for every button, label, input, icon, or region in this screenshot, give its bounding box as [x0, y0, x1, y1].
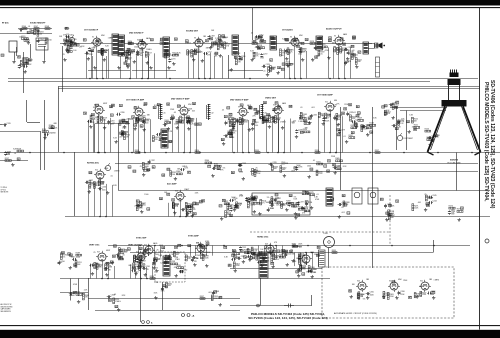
wire crt drop1 [396, 108, 398, 151]
svg-text:1500: 1500 [155, 254, 159, 256]
resistor R247 [366, 125, 371, 129]
resistor R343 [228, 116, 234, 120]
value labels [331, 198, 334, 201]
resistor R412 [286, 62, 292, 66]
resistor R217 [145, 52, 151, 58]
wire left vert from T1 [62, 46, 64, 92]
tube V6 [93, 104, 105, 116]
value labels [327, 156, 348, 173]
terminal box [376, 57, 380, 77]
svg-text:67: 67 [301, 43, 303, 45]
svg-text:C261: C261 [146, 266, 150, 268]
resistor R281 [244, 250, 250, 254]
resistor R236 [188, 118, 194, 123]
wire left drop long [23, 52, 25, 93]
value labels [253, 40, 256, 43]
value labels [121, 116, 135, 125]
ground [211, 174, 214, 178]
svg-text:73: 73 [172, 200, 174, 202]
label tube type 6AG5 [153, 242, 157, 245]
svg-text:83: 83 [161, 39, 163, 41]
top rule line [0, 7, 500, 9]
wire drop comb [214, 56, 216, 79]
wire stage drop [168, 203, 170, 217]
ground [174, 177, 177, 181]
svg-text:29: 29 [142, 43, 144, 45]
svg-text:65: 65 [235, 57, 237, 59]
node junction [146, 278, 148, 280]
tube V1 [91, 36, 103, 48]
rotated page title PHILCO MODELS [483, 82, 489, 202]
wire stage drop [289, 50, 291, 79]
node junction [369, 152, 371, 154]
wire stage drop [108, 49, 110, 79]
wire yoke vert [328, 248, 330, 268]
svg-text:V11: V11 [325, 101, 328, 103]
resistor R382 [174, 251, 180, 257]
ground [366, 133, 369, 137]
value labels [263, 101, 266, 104]
resistor R302 [300, 265, 307, 272]
resistor R394 [282, 250, 287, 254]
value labels [396, 200, 399, 203]
svg-text:78: 78 [132, 117, 134, 119]
svg-text:1500: 1500 [301, 208, 305, 210]
node junction [471, 152, 473, 154]
svg-text:95: 95 [349, 105, 351, 107]
capacitor C206 [238, 55, 245, 60]
value labels [252, 197, 255, 200]
svg-text:78: 78 [210, 39, 212, 41]
svg-text:10: 10 [122, 41, 124, 43]
volume control pot [66, 34, 75, 43]
resistor R316 [217, 44, 224, 50]
transformer T6 [363, 42, 369, 54]
resistor R306 [383, 291, 390, 298]
svg-text:98: 98 [290, 251, 292, 253]
svg-text:5%: 5% [223, 167, 226, 169]
svg-text:17: 17 [227, 108, 229, 110]
svg-text:57: 57 [124, 251, 126, 253]
wire damper drop [260, 278, 262, 306]
shield box with crystal [352, 188, 362, 204]
wire crt drop2 [406, 111, 408, 151]
svg-text:R395: R395 [332, 250, 336, 252]
resistor R320 [321, 44, 327, 48]
svg-text:26: 26 [194, 214, 196, 216]
label tube type 1B3 [203, 36, 206, 38]
svg-text:1500: 1500 [318, 173, 322, 175]
ground [209, 46, 212, 50]
svg-text:49: 49 [264, 101, 266, 104]
ground [106, 191, 109, 195]
node junction [185, 216, 187, 218]
wire row C bus [118, 190, 490, 192]
svg-text:21: 21 [167, 194, 169, 196]
capacitor C306 [107, 295, 115, 299]
value labels [386, 204, 395, 216]
value labels [281, 162, 297, 173]
svg-text:R208: R208 [45, 26, 49, 28]
resistor R358 [143, 168, 149, 172]
capacitor C303 [136, 203, 144, 207]
svg-text:42: 42 [169, 140, 171, 143]
svg-text:100: 100 [281, 55, 284, 57]
svg-text:80: 80 [317, 255, 319, 257]
wire sync row bus [108, 245, 470, 247]
resistor R211 [70, 42, 76, 47]
tube V7 [133, 106, 145, 118]
resistor R264 [185, 202, 191, 208]
node junction [209, 78, 211, 80]
wire stage drop [336, 116, 338, 153]
inductor L32 [207, 104, 214, 120]
value labels [19, 26, 39, 39]
svg-text:5%: 5% [267, 197, 270, 199]
ground [294, 216, 297, 220]
transformer T8 [316, 36, 323, 50]
svg-text:5%: 5% [247, 249, 250, 251]
resistor R363 [271, 165, 277, 170]
wire stage drop [138, 118, 140, 153]
sound discriminator box [252, 193, 310, 215]
resistor R328 [310, 41, 316, 45]
ground [103, 126, 106, 130]
svg-text:1500: 1500 [102, 190, 106, 192]
svg-text:1B3: 1B3 [429, 279, 432, 281]
ground [260, 264, 263, 268]
node junction [335, 152, 337, 154]
svg-text:.01: .01 [251, 33, 254, 35]
svg-text:86: 86 [233, 250, 235, 252]
value labels [271, 37, 274, 40]
svg-text:100: 100 [172, 174, 175, 176]
wire stage drop [133, 120, 135, 153]
capacitor C245 [428, 195, 436, 199]
alternate horizontal circuit dashed box [322, 267, 454, 318]
capacitor C218 [107, 120, 114, 125]
resistor R347 [299, 116, 306, 120]
svg-text:.01: .01 [353, 112, 356, 114]
ground [242, 260, 245, 264]
svg-text:R353: R353 [135, 150, 139, 152]
resistor R277 [140, 255, 146, 260]
wire stage drop [290, 119, 292, 153]
svg-text:87: 87 [358, 52, 360, 54]
resistor R245 [336, 113, 342, 120]
svg-text:38: 38 [92, 114, 94, 116]
svg-text:81: 81 [270, 60, 272, 62]
svg-text:R355: R355 [255, 150, 259, 152]
capacitor C282 [225, 121, 232, 126]
ground [176, 126, 179, 130]
svg-text:C287: C287 [150, 160, 154, 162]
svg-text:1 MEG: 1 MEG [280, 122, 286, 124]
resistor R295 [139, 263, 145, 269]
capacitor C253 [262, 257, 270, 262]
value labels [66, 40, 86, 48]
ground [310, 206, 313, 210]
svg-text:C297: C297 [299, 202, 303, 204]
resistor R371 [316, 161, 322, 165]
value labels [267, 105, 296, 124]
wire stage drop [300, 253, 302, 267]
resistor R314 [165, 52, 171, 58]
svg-text:39: 39 [175, 247, 177, 249]
svg-text:35: 35 [353, 55, 355, 57]
label tube type 6K6 [334, 100, 337, 102]
node junction [198, 78, 200, 80]
resistor R402 [225, 211, 232, 218]
value labels [159, 197, 162, 200]
svg-text:2ND VIDEO IF AMP: 2ND VIDEO IF AMP [171, 97, 190, 100]
wire stage drop [312, 253, 314, 269]
resistor R307 [420, 291, 426, 296]
value labels [91, 252, 120, 266]
svg-text:.01: .01 [303, 116, 306, 118]
resistor R359 [142, 162, 149, 169]
svg-text:C270: C270 [171, 59, 175, 61]
ground [338, 215, 341, 219]
svg-text:.001: .001 [176, 254, 180, 256]
wire drop comb [92, 56, 94, 79]
svg-text:C219: C219 [144, 119, 148, 121]
resistor R210 [45, 38, 51, 44]
capacitor C294 [248, 198, 255, 203]
svg-text:5%: 5% [262, 203, 265, 205]
resistor R234 [135, 117, 141, 123]
resistor R279 [201, 253, 207, 259]
capacitor C267 [427, 291, 435, 296]
svg-text:C271: C271 [224, 43, 228, 45]
capacitor C275 [121, 132, 128, 137]
tube V9 [237, 106, 249, 118]
node junction [139, 245, 141, 247]
wire stage drop [135, 267, 137, 279]
resistor R325 [160, 41, 166, 45]
label AGC AMP [167, 182, 177, 185]
label tube type 6AV6 [343, 33, 347, 36]
resistor R212 [68, 45, 74, 50]
wire stage drop [114, 266, 116, 279]
svg-text:29: 29 [356, 116, 358, 118]
resistor R273 [457, 209, 463, 213]
ground [146, 61, 149, 65]
svg-text:66: 66 [329, 40, 331, 42]
svg-text:1B3: 1B3 [203, 36, 206, 38]
resistor R346 [262, 117, 269, 124]
ground [230, 68, 233, 72]
resistor R362 [280, 166, 286, 172]
label tube type 6AV6 [143, 104, 147, 107]
wire stage drop [152, 266, 154, 279]
transformer T5 [232, 35, 239, 55]
node junction [107, 278, 109, 280]
wire IF bus [0, 152, 500, 154]
svg-text:69: 69 [381, 199, 383, 201]
wire bottom bus [130, 252, 433, 254]
ground [395, 296, 398, 300]
resistor R376 [302, 191, 309, 195]
svg-text:65: 65 [195, 124, 197, 126]
svg-text:R207: R207 [34, 26, 38, 28]
capacitor C269 [120, 52, 128, 56]
resistor R238 [242, 119, 249, 125]
node +A [182, 314, 195, 318]
resistor R208 [45, 26, 50, 30]
wire sub wire [250, 171, 478, 173]
value labels [260, 57, 276, 72]
svg-text:6AU6: 6AU6 [146, 37, 150, 40]
capacitor C243 [270, 203, 278, 207]
wire bottom link [230, 305, 312, 307]
value labels [150, 39, 153, 42]
capacitor C276 [156, 132, 164, 136]
resistor R237 [180, 116, 186, 123]
capacitor C307 [161, 287, 168, 292]
value labels [252, 249, 266, 259]
value labels [352, 37, 355, 40]
resistor R207 [34, 26, 39, 30]
transformer T1 [9, 41, 17, 52]
svg-text:100: 100 [276, 198, 279, 200]
value labels [157, 103, 160, 106]
capacitor C284 [310, 114, 317, 119]
resistor R205 [20, 60, 26, 66]
label DAMPER [293, 245, 302, 248]
svg-text:85: 85 [137, 201, 139, 203]
resistor R365 [335, 158, 342, 162]
tube V10 [272, 104, 284, 116]
node junction [311, 252, 313, 254]
wire stage drop [186, 205, 188, 217]
svg-text:.25: .25 [215, 40, 218, 42]
node junction [181, 245, 183, 247]
wire stage drop [300, 48, 302, 78]
node junction [267, 152, 269, 154]
value labels [89, 171, 120, 187]
ground [133, 127, 136, 131]
ground [283, 174, 286, 178]
svg-text:C241: C241 [238, 203, 242, 205]
svg-text:1ST VIDEO AMP: 1ST VIDEO AMP [317, 93, 333, 96]
resistor R204 [26, 58, 32, 64]
ground [192, 58, 195, 62]
resistor R265 [227, 203, 233, 210]
value labels [144, 103, 147, 106]
value labels [356, 105, 359, 108]
svg-text:26: 26 [241, 105, 243, 107]
node junction [29, 152, 31, 154]
resistor R244 [318, 112, 324, 117]
wire right sub vert [456, 153, 458, 191]
node junction [329, 152, 331, 154]
svg-text:R274: R274 [449, 205, 453, 207]
wire left chain 2 [18, 28, 52, 30]
resistor R309 [66, 42, 72, 46]
svg-text:SEE NOTE: SEE NOTE [1, 192, 9, 194]
ground [424, 208, 427, 212]
capacitor C224 [251, 122, 258, 127]
capacitor C230 [362, 124, 370, 128]
svg-text:6AV6: 6AV6 [343, 33, 347, 36]
svg-text:27: 27 [96, 105, 98, 107]
resistor R322 [355, 58, 361, 65]
svg-text:93: 93 [265, 121, 267, 123]
value labels [248, 106, 251, 109]
transformer T11 [259, 252, 268, 278]
svg-text:90: 90 [257, 112, 259, 114]
svg-text:21: 21 [239, 165, 241, 167]
resistor R305 [387, 293, 394, 300]
value labels [282, 39, 304, 56]
capacitor C223 [236, 119, 243, 124]
wire stage drop [136, 52, 138, 79]
value labels [197, 39, 200, 42]
svg-text:5%: 5% [363, 298, 366, 300]
transformer T9 [326, 188, 333, 206]
capacitor C311 [189, 208, 196, 213]
ground [253, 210, 256, 214]
resistor R366 [176, 171, 182, 175]
ground [63, 58, 66, 62]
value labels [319, 37, 322, 40]
svg-text:70: 70 [253, 41, 255, 43]
resistor R298 [171, 261, 178, 265]
svg-text:68: 68 [127, 65, 129, 67]
svg-text:.05: .05 [173, 112, 176, 114]
node ring [257, 304, 260, 307]
wire stage drop [142, 51, 144, 79]
ground [311, 275, 314, 279]
wire stage drop [210, 53, 212, 79]
svg-text:51: 51 [385, 113, 387, 115]
svg-text:SOUND DET: SOUND DET [186, 30, 199, 32]
value labels [246, 195, 270, 204]
wire stage drop [98, 116, 100, 153]
tube V3 [193, 37, 205, 49]
svg-text:47: 47 [206, 40, 208, 43]
svg-text:1 MEG: 1 MEG [182, 166, 188, 168]
value labels [221, 132, 235, 141]
resistor R391 [113, 298, 121, 304]
wire B+ bus upper [8, 78, 478, 80]
label tube type 6W4 [101, 35, 105, 37]
wire drop comb [120, 56, 122, 79]
bottom rule line [0, 325, 500, 327]
wire stage drop [148, 246, 150, 257]
node junction [63, 152, 65, 154]
resistor R350 [350, 115, 357, 121]
resistor R408 [298, 259, 305, 265]
resistor R243 [269, 115, 275, 122]
svg-text:C320: C320 [266, 64, 270, 66]
resistor R333 [227, 131, 232, 135]
value labels [154, 282, 166, 294]
node junction [140, 278, 142, 280]
svg-text:80: 80 [275, 103, 277, 105]
svg-text:67: 67 [301, 132, 303, 134]
capacitor C270 [168, 58, 175, 63]
resistor R269 [286, 201, 293, 205]
svg-text:71: 71 [328, 161, 330, 163]
resistor R263 [173, 203, 179, 209]
resistor R352 [384, 110, 391, 115]
svg-text:.001: .001 [311, 107, 315, 109]
resistor R367 [170, 171, 176, 176]
svg-text:37: 37 [229, 114, 231, 116]
node junction [98, 152, 100, 154]
